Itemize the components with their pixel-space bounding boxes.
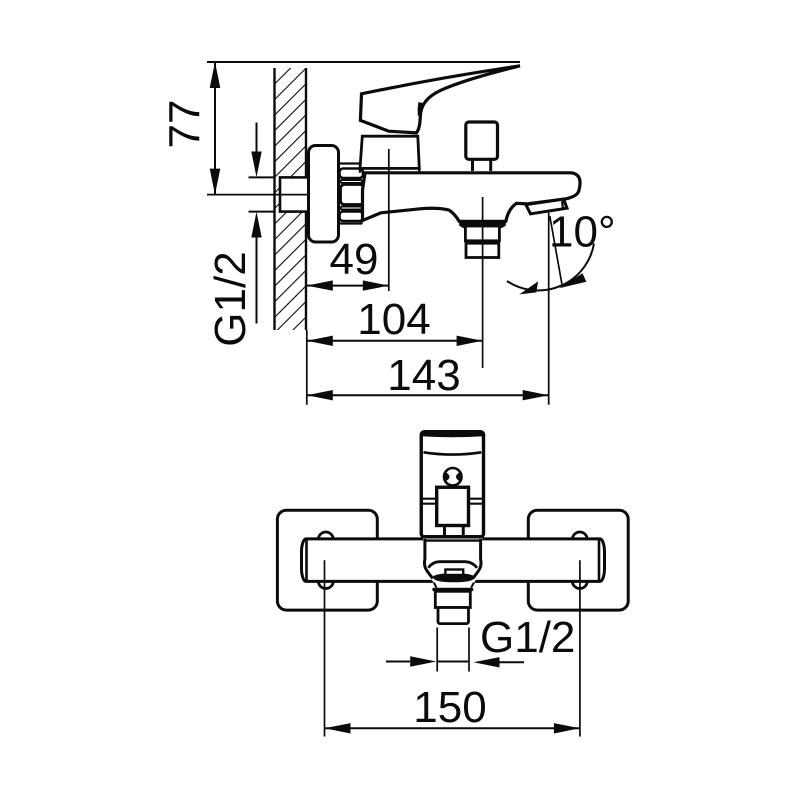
svg-text:G1/2: G1/2 xyxy=(480,613,575,662)
svg-text:143: 143 xyxy=(387,351,460,400)
svg-text:10°: 10° xyxy=(549,208,616,257)
svg-text:77: 77 xyxy=(161,100,210,149)
svg-text:49: 49 xyxy=(330,235,379,284)
svg-text:150: 150 xyxy=(413,683,486,732)
svg-text:G1/2: G1/2 xyxy=(206,251,255,346)
svg-text:104: 104 xyxy=(357,295,430,344)
